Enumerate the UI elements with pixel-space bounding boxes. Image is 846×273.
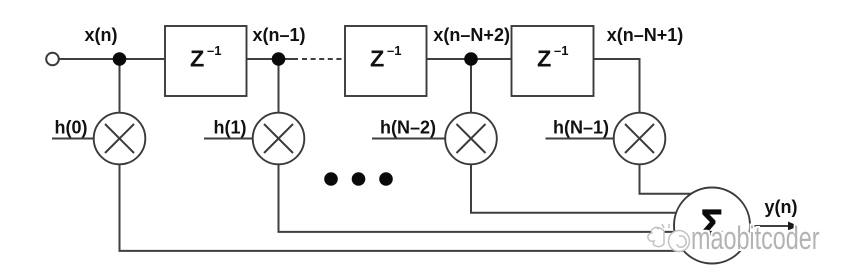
wire h(1) into M2 [204,138,253,140]
svg-text:–1: –1 [387,43,401,58]
wire h(N-2) into M3 [372,138,446,140]
svg-text:Z: Z [537,46,551,72]
svg-text:x(n): x(n) [85,25,118,45]
wire node2 down to multiplier M2 [278,64,280,113]
wire M4 to summer [640,164,713,194]
wire box3 to elbow [594,59,640,113]
svg-text:x(n–N+2): x(n–N+2) [433,25,510,45]
multiplier M4 [614,113,666,165]
node x(n-1) [272,52,286,66]
wire M3 to summer [471,164,712,213]
watermark text maobitcoder [691,222,820,254]
wire h(N-1) into M4 [546,138,615,140]
multiplier M2 [253,113,305,165]
ellipsis dot 1 [324,172,338,186]
delay block U2 Z^-1 [345,26,427,96]
wire input to box1 [59,58,166,60]
wire M1 to summer [120,164,713,251]
watermark cat logo [648,224,690,252]
svg-text:x(n–1): x(n–1) [252,25,305,45]
wire node1 down to multiplier M1 [119,64,121,113]
wire box2 to box3 [427,58,512,60]
svg-text:h(N–1): h(N–1) [553,118,609,138]
input terminal [46,53,59,66]
multiplier M1 [94,113,146,165]
svg-text:–1: –1 [554,43,568,58]
summer S1 [674,188,750,264]
delay block U1 Z^-1 [165,26,247,96]
ellipsis dot 3 [379,172,393,186]
node x(n-N+2) [464,52,478,66]
svg-text:y(n): y(n) [765,197,798,217]
delay block U3 Z^-1 [512,26,594,96]
output arrow [750,222,799,231]
svg-text:Z: Z [370,46,384,72]
ellipsis dot 2 [352,172,366,186]
svg-text:h(0): h(0) [55,118,88,138]
svg-text:h(1): h(1) [214,118,247,138]
svg-text:h(N–2): h(N–2) [380,118,436,138]
wire dashed segment [302,58,345,60]
wire box1 to node2 solid [247,58,299,60]
wire M2 to summer [279,164,713,232]
svg-text:Z: Z [190,46,204,72]
wire h(0) into M1 [52,138,94,140]
node x(n) [113,52,127,66]
multiplier M3 [445,113,497,165]
svg-text:–1: –1 [207,43,221,58]
wire node3 down to multiplier M3 [470,64,472,113]
svg-text:x(n–N+1): x(n–N+1) [607,25,684,45]
